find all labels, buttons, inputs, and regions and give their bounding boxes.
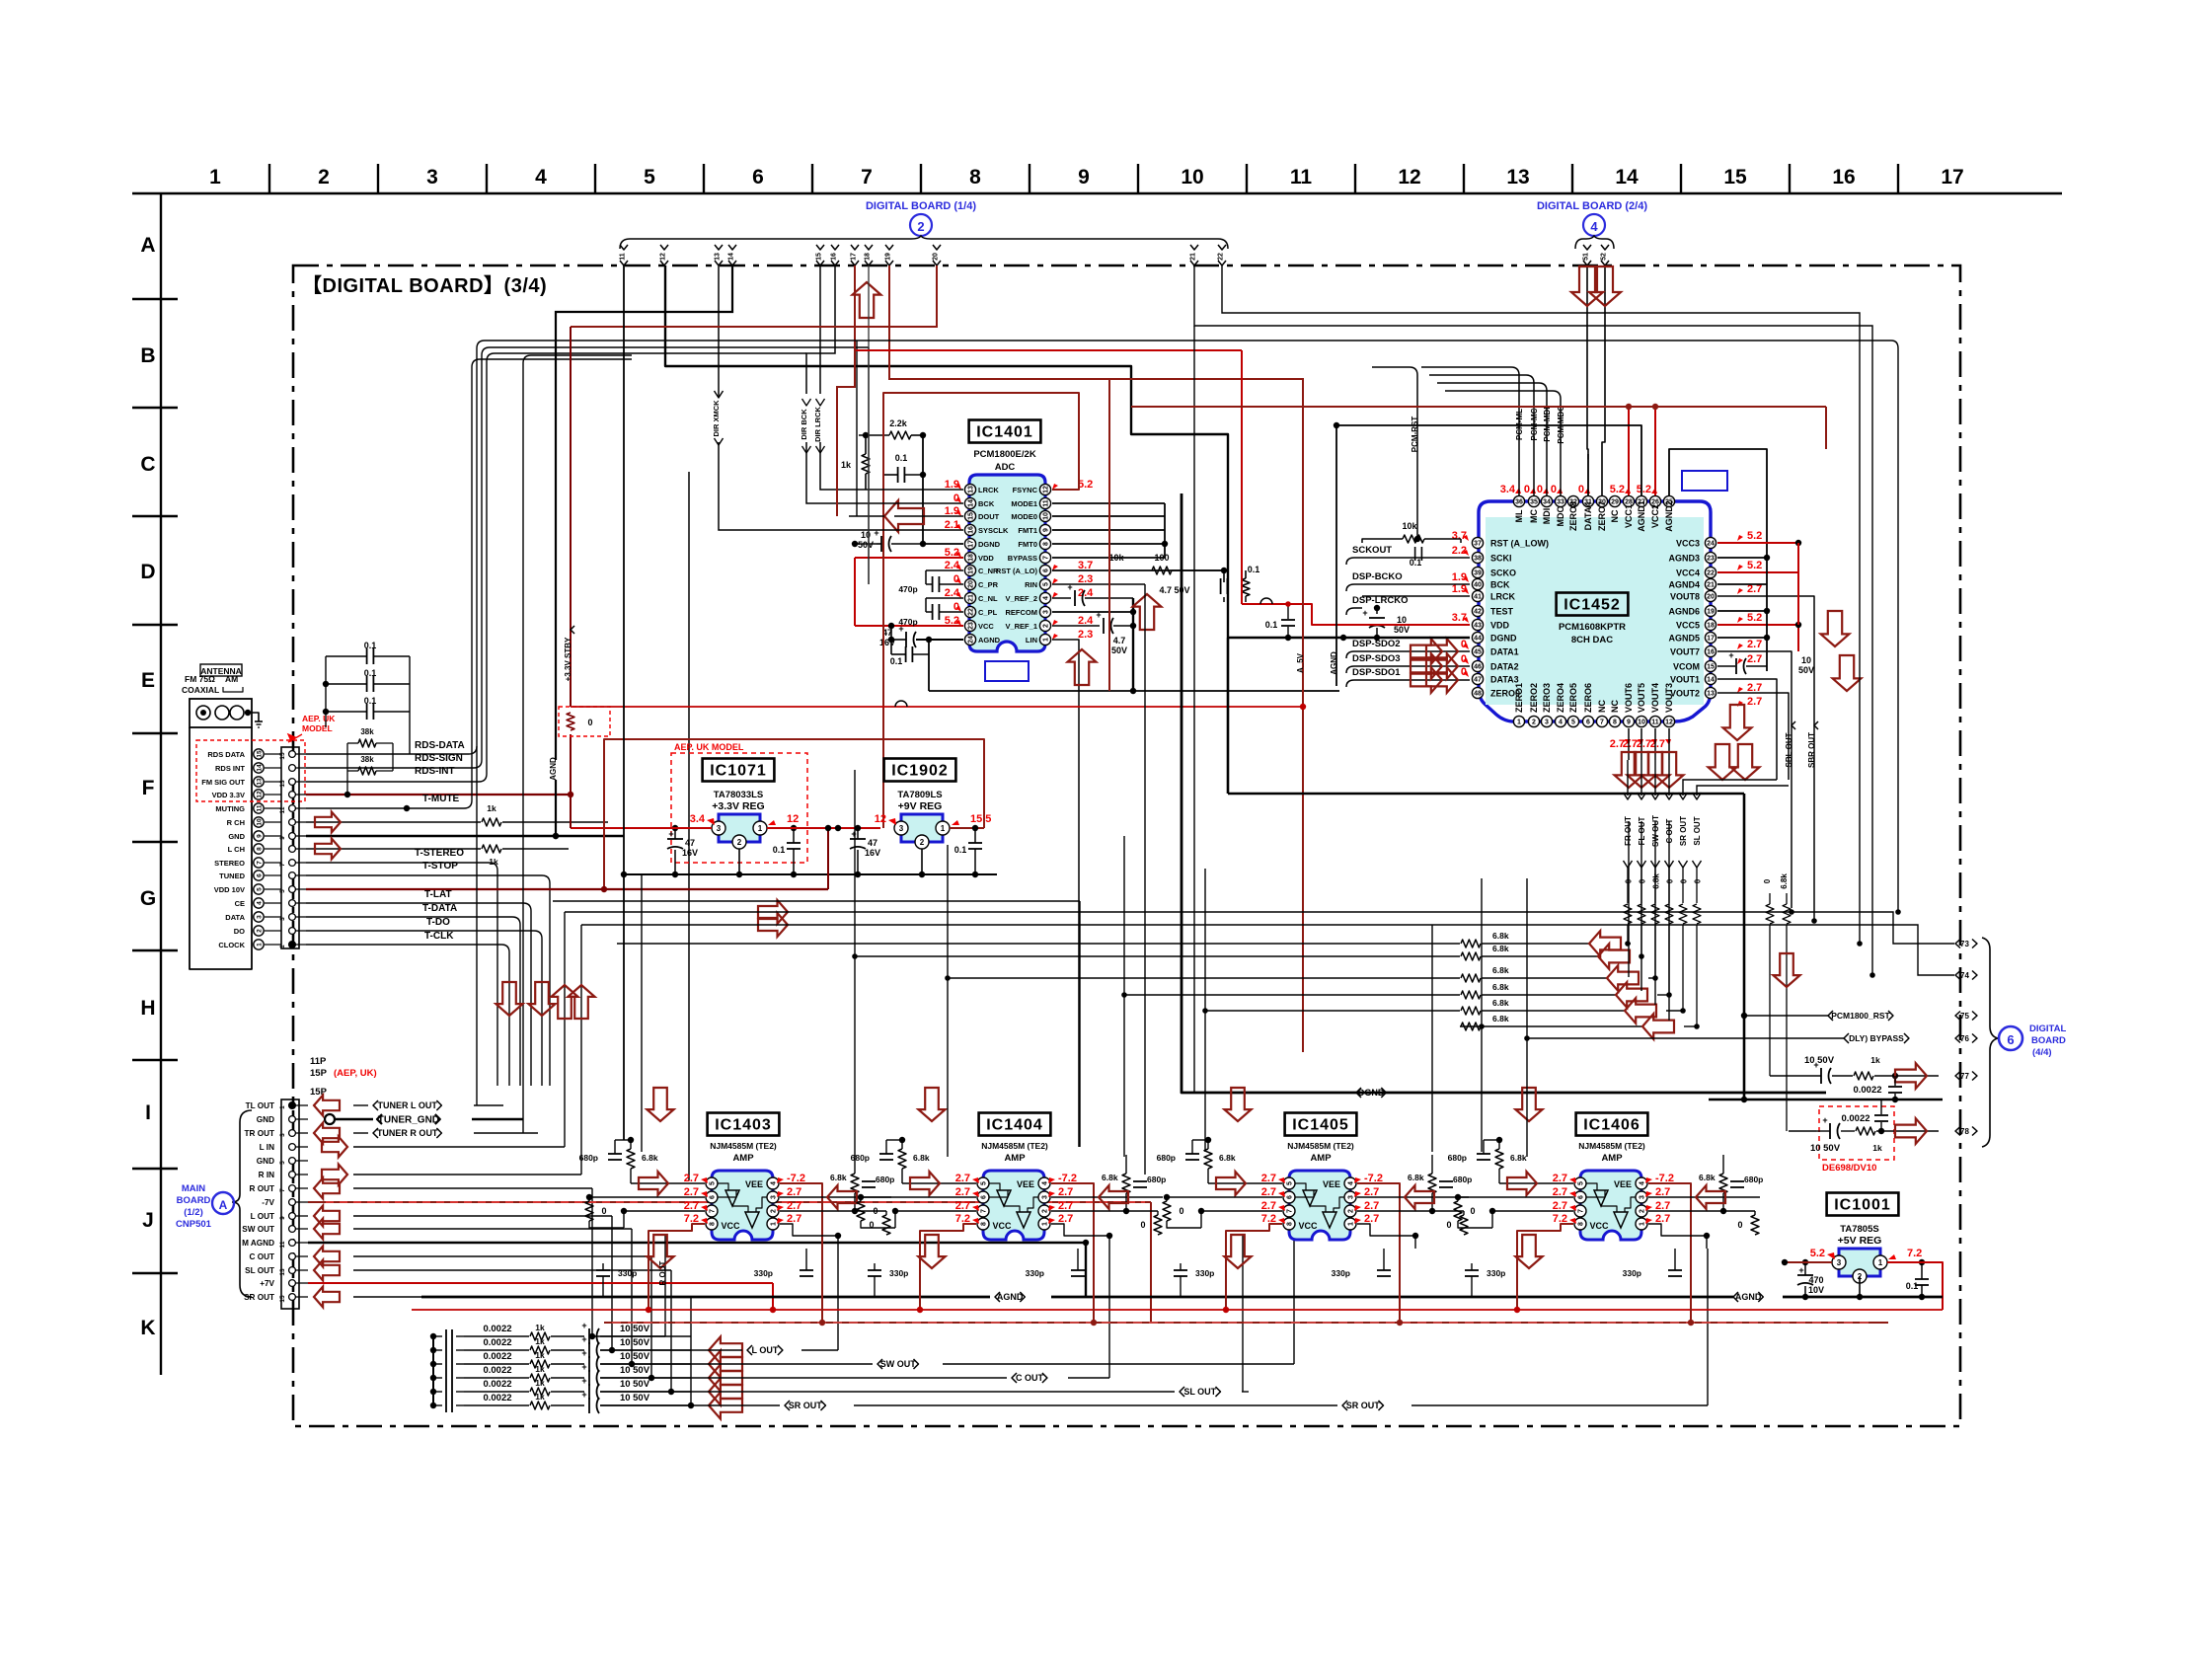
svg-text:2.7: 2.7 xyxy=(1747,682,1762,694)
svg-text:2: 2 xyxy=(737,838,742,847)
svg-text:0.1: 0.1 xyxy=(895,453,908,463)
svg-text:0.1: 0.1 xyxy=(364,641,377,650)
svg-text:6: 6 xyxy=(1287,1195,1294,1199)
svg-text:6: 6 xyxy=(752,166,764,189)
svg-text:+: + xyxy=(581,1390,586,1400)
svg-text:16: 16 xyxy=(968,526,975,534)
svg-text:DSP-BCKO: DSP-BCKO xyxy=(1352,571,1403,582)
amp 752 pin3 wire arrow xyxy=(780,1196,891,1198)
svg-text:2: 2 xyxy=(1348,1209,1355,1213)
svg-text:TUNER L OUT: TUNER L OUT xyxy=(378,1100,438,1110)
svg-text:4: 4 xyxy=(1640,1181,1646,1185)
svg-text:21: 21 xyxy=(1707,582,1715,589)
svg-text:1k: 1k xyxy=(535,1364,545,1374)
svg-text:1: 1 xyxy=(209,166,221,189)
wire vcc red to pin 23 xyxy=(855,625,963,627)
resistor 0 right amp 1632 xyxy=(1751,1215,1759,1235)
strip pin 3 xyxy=(289,914,296,921)
connector 6 pin 77 xyxy=(1955,1072,1960,1081)
svg-text:2.7: 2.7 xyxy=(1364,1200,1379,1212)
riser 1094 down xyxy=(1079,901,1081,1147)
IC1001 body xyxy=(1839,1249,1880,1276)
svg-text:1: 1 xyxy=(279,1105,286,1109)
IC1401 pin 3 REFCOM xyxy=(1039,606,1050,617)
arrow SW OUT xyxy=(314,1219,340,1240)
svg-text:REFCOM: REFCOM xyxy=(1006,608,1038,617)
net DLY BYPASS xyxy=(1844,1033,1849,1043)
svg-text:16: 16 xyxy=(831,253,838,261)
wire VCC3 red right xyxy=(1717,542,1798,544)
svg-text:MODEL: MODEL xyxy=(302,723,333,733)
op IC1403 designator box xyxy=(708,1113,780,1136)
svg-text:3: 3 xyxy=(279,1133,286,1137)
wire VDD 3.3V red xyxy=(306,794,571,796)
net C OUT bottom xyxy=(600,1377,1007,1379)
R OUT drop xyxy=(591,1188,593,1336)
column FL OUT wire and resistor xyxy=(1640,868,1642,903)
svg-text:19: 19 xyxy=(1707,609,1715,616)
wire AGND4 xyxy=(1717,583,1767,585)
svg-text:7: 7 xyxy=(279,1188,286,1192)
svg-text:42: 42 xyxy=(1474,609,1482,616)
svg-text:LRCK: LRCK xyxy=(1490,592,1515,602)
output column SW OUT xyxy=(1654,790,1656,796)
row 6.8k h5 xyxy=(1205,1010,1460,1012)
svg-text:8: 8 xyxy=(1287,1222,1294,1226)
thick horiz 804 xyxy=(1228,793,1744,796)
strip pin 14 xyxy=(289,765,296,772)
amp 1337 330p caps xyxy=(1174,1269,1187,1271)
svg-text:11: 11 xyxy=(279,806,286,813)
svg-text:FMT1: FMT1 xyxy=(1018,526,1037,535)
svg-text:1: 1 xyxy=(1878,1258,1883,1267)
IC1452 pin 17 AGND5 xyxy=(1705,632,1716,643)
wire agnd2 up right xyxy=(1669,449,1767,558)
svg-text:NC: NC xyxy=(1597,700,1607,713)
resistor 0 right amp 752 xyxy=(882,1215,890,1235)
svg-text:2.7: 2.7 xyxy=(1261,1186,1276,1198)
long riser 698 xyxy=(688,472,690,1180)
svg-text:CLOCK: CLOCK xyxy=(218,941,245,949)
svg-text:2.4: 2.4 xyxy=(1078,587,1094,599)
wire AGND3 xyxy=(1717,557,1767,559)
SR OUT drop xyxy=(690,1297,692,1405)
svg-text:RST (A_LO): RST (A_LO) xyxy=(996,567,1038,575)
wire pin15 DIR LRCK to LRCK xyxy=(819,265,821,394)
strip pin 7 xyxy=(289,860,296,867)
svg-text:4: 4 xyxy=(1348,1181,1355,1185)
left bundle vert 549 T-DO xyxy=(541,939,543,1086)
svg-text:CNP501: CNP501 xyxy=(176,1219,212,1230)
svg-text:1k: 1k xyxy=(535,1350,545,1360)
IC1452 pin 1 ZERO1 xyxy=(1513,716,1524,726)
wire L CH with 1k xyxy=(306,848,481,850)
strip pin 6 xyxy=(289,872,296,879)
IC1902 body xyxy=(901,814,943,842)
svg-text:10 50V: 10 50V xyxy=(620,1379,650,1390)
arrows down below IC1452 vout xyxy=(1615,752,1643,788)
svg-text:2.2: 2.2 xyxy=(1452,545,1467,557)
wire 345 right corner down xyxy=(1891,341,1898,912)
svg-text:330p: 330p xyxy=(618,1268,637,1278)
wire vref vertical thick xyxy=(1132,598,1134,691)
svg-text:6.8k: 6.8k xyxy=(1492,944,1509,953)
connector 6 pin 78 xyxy=(1955,1127,1960,1136)
dark red 412 rail xyxy=(1131,406,1826,408)
amp 1337 VEE dark red right xyxy=(1357,1183,1400,1323)
svg-text:5: 5 xyxy=(279,889,286,893)
svg-text:7: 7 xyxy=(861,166,873,189)
IC1452 pin 43 VDD xyxy=(1472,619,1483,630)
wire data4 riser top xyxy=(1587,459,1589,495)
svg-text:10 50V: 10 50V xyxy=(1804,1055,1835,1066)
dark red riser 1124 xyxy=(1108,379,1110,691)
svg-text:0.1: 0.1 xyxy=(1248,565,1260,574)
svg-text:FSYNC: FSYNC xyxy=(1013,486,1038,494)
C OUT riser xyxy=(1108,1249,1110,1378)
svg-text:BOARD: BOARD xyxy=(2031,1035,2066,1046)
wire into IC1001 pin3 xyxy=(1785,1261,1832,1263)
red wire y716 to A5V xyxy=(571,706,1303,708)
svg-text:NC: NC xyxy=(1610,700,1620,713)
strip pin 5 xyxy=(289,886,296,893)
svg-text:BYPASS: BYPASS xyxy=(1008,554,1037,563)
svg-text:10 50V: 10 50V xyxy=(620,1324,650,1334)
RC bus vertical xyxy=(432,1336,434,1405)
svg-text:DIGITAL BOARD (2/4): DIGITAL BOARD (2/4) xyxy=(1537,200,1647,212)
svg-text:11: 11 xyxy=(620,253,627,261)
frame ruler line xyxy=(132,192,2062,194)
amp 752 pin1 out wire xyxy=(780,1224,838,1249)
IC1452 pin 25 AGND2 xyxy=(1663,495,1674,506)
svg-text:2.7: 2.7 xyxy=(1655,1186,1670,1198)
svg-text:MC: MC xyxy=(1529,509,1539,523)
svg-text:6.8k: 6.8k xyxy=(1780,873,1789,889)
svg-text:0: 0 xyxy=(1140,1220,1145,1230)
AEP UK MODEL red dashed box IC1071 xyxy=(671,753,807,863)
strip pin 9 xyxy=(289,833,296,840)
svg-text:2.7: 2.7 xyxy=(1747,696,1762,708)
resistor 0 left amp 1027 xyxy=(857,1201,865,1221)
wire pin13 to SYSCLK xyxy=(719,442,963,530)
output column FR OUT xyxy=(1627,790,1629,796)
strip pin 13 xyxy=(289,779,296,786)
IC1071 body xyxy=(719,814,760,842)
IC1403 opamp triangles xyxy=(725,1190,739,1206)
svg-text:11P: 11P xyxy=(310,1056,327,1067)
capacitor 680p left of amp 1337 xyxy=(1185,1153,1199,1155)
svg-text:V_REF_1: V_REF_1 xyxy=(1005,622,1037,631)
svg-text:3: 3 xyxy=(1837,1258,1842,1267)
svg-text:0.1: 0.1 xyxy=(773,845,786,855)
svg-text:13: 13 xyxy=(715,253,722,261)
svg-text:16V: 16V xyxy=(682,848,698,858)
svg-text:0.0022: 0.0022 xyxy=(483,1393,511,1403)
svg-text:7.2: 7.2 xyxy=(1907,1248,1922,1259)
svg-text:LRCK: LRCK xyxy=(978,486,999,494)
amp 1632 pin2 wire xyxy=(1648,1210,1755,1212)
svg-text:VOUT3: VOUT3 xyxy=(1664,683,1674,713)
svg-text:73: 73 xyxy=(1960,940,1969,948)
svg-text:DIR LRCK: DIR LRCK xyxy=(813,407,822,442)
amp 1632 VEE dark red right xyxy=(1648,1183,1691,1323)
wire vout2 to column SL xyxy=(1697,786,1789,790)
svg-text:46: 46 xyxy=(1474,664,1482,671)
svg-text:50V: 50V xyxy=(858,540,874,550)
svg-text:7: 7 xyxy=(710,1209,717,1213)
drop 1663 xyxy=(1640,821,1642,991)
svg-text:DIR BCK: DIR BCK xyxy=(800,409,808,440)
svg-text:2: 2 xyxy=(256,929,263,933)
svg-text:VDD 10V: VDD 10V xyxy=(214,885,245,894)
svg-text:+3.3V REG: +3.3V REG xyxy=(712,800,764,812)
connector 2 pin 14 xyxy=(728,245,736,250)
svg-text:AGND: AGND xyxy=(978,636,1001,644)
riser 960 xyxy=(947,845,949,1157)
IC1452 pin 31 DATA4 xyxy=(1582,495,1593,506)
IC1452 pin 36 ML xyxy=(1513,495,1524,506)
amp 1632 pin3 wire arrow xyxy=(1648,1196,1760,1198)
svg-text:IC1401: IC1401 xyxy=(976,424,1033,441)
connector 2 pin 19 xyxy=(885,245,893,250)
IC1401 pin 16 SYSCLK xyxy=(964,524,975,535)
svg-text:5.2: 5.2 xyxy=(1747,612,1762,624)
svg-text:RDS-INT: RDS-INT xyxy=(415,766,455,777)
svg-text:5.2: 5.2 xyxy=(1610,484,1625,495)
resistor 6.8k left of amp 1337 xyxy=(1204,1149,1212,1169)
svg-text:5.2: 5.2 xyxy=(1078,479,1093,491)
svg-text:5: 5 xyxy=(279,1161,286,1165)
strip pin 15 xyxy=(289,751,296,758)
svg-text:12: 12 xyxy=(1665,720,1673,726)
svg-text:22: 22 xyxy=(1218,253,1225,261)
svg-text:14: 14 xyxy=(256,764,263,772)
svg-text:BCK: BCK xyxy=(978,499,995,508)
connector 2 pin 22 xyxy=(1218,245,1226,250)
row hB to 74 xyxy=(581,925,1954,975)
svg-text:6.8k: 6.8k xyxy=(1492,965,1509,975)
IC1404 body xyxy=(983,1171,1044,1240)
svg-text:TUNED: TUNED xyxy=(219,872,245,880)
wire AGND5 xyxy=(1717,637,1767,639)
svg-text:VOUT2: VOUT2 xyxy=(1670,689,1700,699)
wire REFCOM xyxy=(1052,611,1133,613)
arrow C OUT xyxy=(314,1247,340,1267)
svg-text:0.0022: 0.0022 xyxy=(483,1351,511,1362)
row 6.8k h2 xyxy=(855,955,1460,957)
svg-text:6: 6 xyxy=(981,1195,988,1199)
SR OUT riser xyxy=(1707,1249,1709,1405)
arrow down T-DO xyxy=(528,982,555,1016)
svg-text:5: 5 xyxy=(710,1181,717,1185)
IC1452 pin 10 VOUT5 xyxy=(1636,716,1646,726)
svg-text:0.0022: 0.0022 xyxy=(483,1365,511,1376)
svg-text:L CH: L CH xyxy=(228,845,245,854)
IC1401 body xyxy=(969,475,1045,651)
IC1403 pins right xyxy=(767,1177,779,1189)
wire vout1 to column SR xyxy=(1683,780,1777,790)
arrow pcm data down double xyxy=(1571,266,1603,306)
op IC1406 designator box xyxy=(1576,1113,1648,1136)
svg-text:R CH: R CH xyxy=(227,818,245,827)
svg-text:10: 10 xyxy=(256,818,263,826)
wire pin20 dark red 3.3V stby xyxy=(571,265,937,327)
svg-text:1: 1 xyxy=(771,1222,778,1226)
svg-text:680p: 680p xyxy=(1448,1153,1467,1163)
svg-text:51: 51 xyxy=(1583,253,1590,261)
svg-text:NJM4585M (TE2): NJM4585M (TE2) xyxy=(710,1141,777,1151)
RC row 6 xyxy=(430,1403,436,1408)
svg-text:SW OUT: SW OUT xyxy=(242,1225,274,1234)
riser 1501 xyxy=(1481,878,1483,1152)
svg-text:2.2k: 2.2k xyxy=(889,418,908,428)
dark red 1822 riser xyxy=(1825,407,1827,449)
svg-text:15: 15 xyxy=(816,253,823,261)
IC1452 pin 24 VCC3 xyxy=(1705,537,1716,548)
svg-text:PCM1608KPTR: PCM1608KPTR xyxy=(1559,622,1626,633)
svg-text:MDO: MDO xyxy=(1556,506,1565,527)
svg-text:12: 12 xyxy=(787,813,799,825)
svg-text:1: 1 xyxy=(1517,720,1521,726)
svg-text:ZERO5: ZERO5 xyxy=(1568,683,1578,713)
svg-text:1: 1 xyxy=(256,943,263,947)
wire left bundle 530 tuner r out xyxy=(523,355,632,1133)
resistor 6.8k left of amp 752 xyxy=(627,1149,635,1169)
IC1401 bottom blue box xyxy=(985,661,1029,681)
wire y345 to DOUT riser xyxy=(856,341,858,516)
svg-text:FMT0: FMT0 xyxy=(1018,540,1037,549)
wire y352 riser to C_PR xyxy=(868,347,870,584)
svg-text:0.1: 0.1 xyxy=(1265,620,1278,630)
arrows down right of IC1452 xyxy=(1821,611,1850,646)
svg-text:ZERO3: ZERO3 xyxy=(1542,683,1552,713)
svg-text:7: 7 xyxy=(279,863,286,867)
DGND thick riser xyxy=(1181,493,1183,1026)
svg-text:0: 0 xyxy=(1680,878,1689,883)
svg-text:43: 43 xyxy=(1474,623,1482,630)
svg-text:BCK: BCK xyxy=(1490,580,1510,590)
IC1401 pin 12 FSYNC xyxy=(1039,484,1050,494)
wire LIN xyxy=(1052,640,1079,1147)
verticals from vout arrows down to H rows xyxy=(1628,821,1630,977)
svg-text:C OUT: C OUT xyxy=(1016,1373,1044,1383)
svg-text:6.8k: 6.8k xyxy=(1652,873,1661,889)
IC1452 pin 2 ZERO2 xyxy=(1528,716,1539,726)
net L OUT bottom xyxy=(600,1349,742,1351)
IC1452 pin 13 VOUT2 xyxy=(1705,687,1716,698)
svg-text:VOUT5: VOUT5 xyxy=(1637,683,1646,713)
arrow L IN xyxy=(322,1137,347,1158)
svg-text:VDD: VDD xyxy=(978,554,994,563)
svg-text:VOUT6: VOUT6 xyxy=(1624,683,1634,713)
svg-text:AGND3: AGND3 xyxy=(1668,554,1700,564)
svg-text:2.7: 2.7 xyxy=(1747,653,1762,665)
svg-text:52: 52 xyxy=(1601,253,1608,261)
wire pin19 dark red A5V feed xyxy=(889,265,1303,604)
IC1001 pin2 down xyxy=(1859,1276,1861,1297)
svg-text:74: 74 xyxy=(1960,971,1969,980)
amp 752 pin7 wire xyxy=(624,1210,705,1212)
svg-text:1: 1 xyxy=(1348,1222,1355,1226)
L OUT drop xyxy=(611,1216,613,1350)
svg-text:SYSCLK: SYSCLK xyxy=(978,526,1009,535)
svg-text:ZERO1: ZERO1 xyxy=(1514,683,1524,713)
svg-text:330p: 330p xyxy=(754,1268,773,1278)
svg-text:PCM-MDO: PCM-MDO xyxy=(1557,405,1565,443)
svg-text:6.8k: 6.8k xyxy=(1219,1153,1236,1163)
svg-text:21: 21 xyxy=(1190,253,1197,261)
svg-text:10V: 10V xyxy=(1808,1285,1824,1295)
amp 1337 input wires xyxy=(1208,1182,1282,1184)
connector 6 pin 74 xyxy=(1955,971,1960,980)
antenna connector box xyxy=(190,699,252,727)
wire left bundle 483 xyxy=(477,341,1891,1105)
svg-text:2.7: 2.7 xyxy=(1553,1173,1567,1184)
wire red IC1071 pin1 to IC1902 pin3 xyxy=(767,827,880,829)
svg-text:DGND: DGND xyxy=(1490,634,1517,644)
resistor 0 right amp 1027 xyxy=(1154,1215,1162,1235)
wires vcc1 vcc2 red drops xyxy=(1628,407,1630,495)
row 6.8k h1 xyxy=(617,943,1460,945)
svg-text:76: 76 xyxy=(1960,1034,1969,1043)
amp 1632 pin7 wire xyxy=(1492,1210,1573,1212)
svg-text:T-STOP: T-STOP xyxy=(422,861,458,872)
svg-text:IC1001: IC1001 xyxy=(1834,1197,1891,1214)
svg-text:24: 24 xyxy=(1707,541,1715,548)
wire VDD red to pin 18 xyxy=(855,557,963,559)
svg-text:10 50V: 10 50V xyxy=(620,1337,650,1348)
svg-text:+: + xyxy=(581,1376,586,1386)
svg-text:1k: 1k xyxy=(535,1336,545,1346)
svg-text:3.7: 3.7 xyxy=(1452,612,1467,624)
svg-text:DSP-SDO3: DSP-SDO3 xyxy=(1352,653,1401,664)
IC1401 pin 6 RST (A_LO) xyxy=(1039,565,1050,575)
output column C OUT xyxy=(1668,790,1670,796)
svg-text:GND: GND xyxy=(257,1157,274,1166)
svg-text:ZERO6: ZERO6 xyxy=(1583,683,1593,713)
IC1452 pin 8 NC xyxy=(1609,716,1620,726)
DGND thick bus xyxy=(1182,1026,1826,1093)
svg-text:2.7: 2.7 xyxy=(955,1200,970,1212)
svg-text:7: 7 xyxy=(981,1209,988,1213)
svg-text:D: D xyxy=(140,561,155,583)
svg-text:2.7: 2.7 xyxy=(1261,1200,1276,1212)
IC1452 pin 44 DGND xyxy=(1472,632,1483,643)
svg-text:E: E xyxy=(141,669,155,692)
red riser to vdd ic1452 xyxy=(1241,350,1243,604)
amp 1337 pin1 out wire xyxy=(1357,1224,1415,1249)
arrow R OUT xyxy=(314,1178,340,1199)
svg-text:7: 7 xyxy=(1043,556,1050,560)
amp 1027 pin1 out wire xyxy=(1051,1224,1109,1249)
wire pin 51 down xyxy=(1587,265,1588,459)
svg-text:1: 1 xyxy=(1042,1222,1049,1226)
svg-text:680p: 680p xyxy=(851,1153,870,1163)
output column SL OUT xyxy=(1696,790,1698,796)
svg-text:AMP: AMP xyxy=(1310,1153,1332,1164)
svg-text:7: 7 xyxy=(256,861,263,865)
svg-text:13: 13 xyxy=(279,1268,286,1276)
svg-text:2.7: 2.7 xyxy=(684,1186,699,1198)
wire IC1902 pin1 right dark red xyxy=(950,827,984,829)
svg-text:5: 5 xyxy=(1287,1181,1294,1185)
svg-text:0: 0 xyxy=(1470,1206,1475,1216)
svg-text:DSP-SDO1: DSP-SDO1 xyxy=(1352,667,1401,678)
net SL OUT bottom xyxy=(600,1391,1175,1393)
IC1401 pin 17 DGND xyxy=(964,538,975,549)
svg-text:+: + xyxy=(1728,650,1733,660)
svg-text:(4/4): (4/4) xyxy=(2032,1047,2052,1058)
